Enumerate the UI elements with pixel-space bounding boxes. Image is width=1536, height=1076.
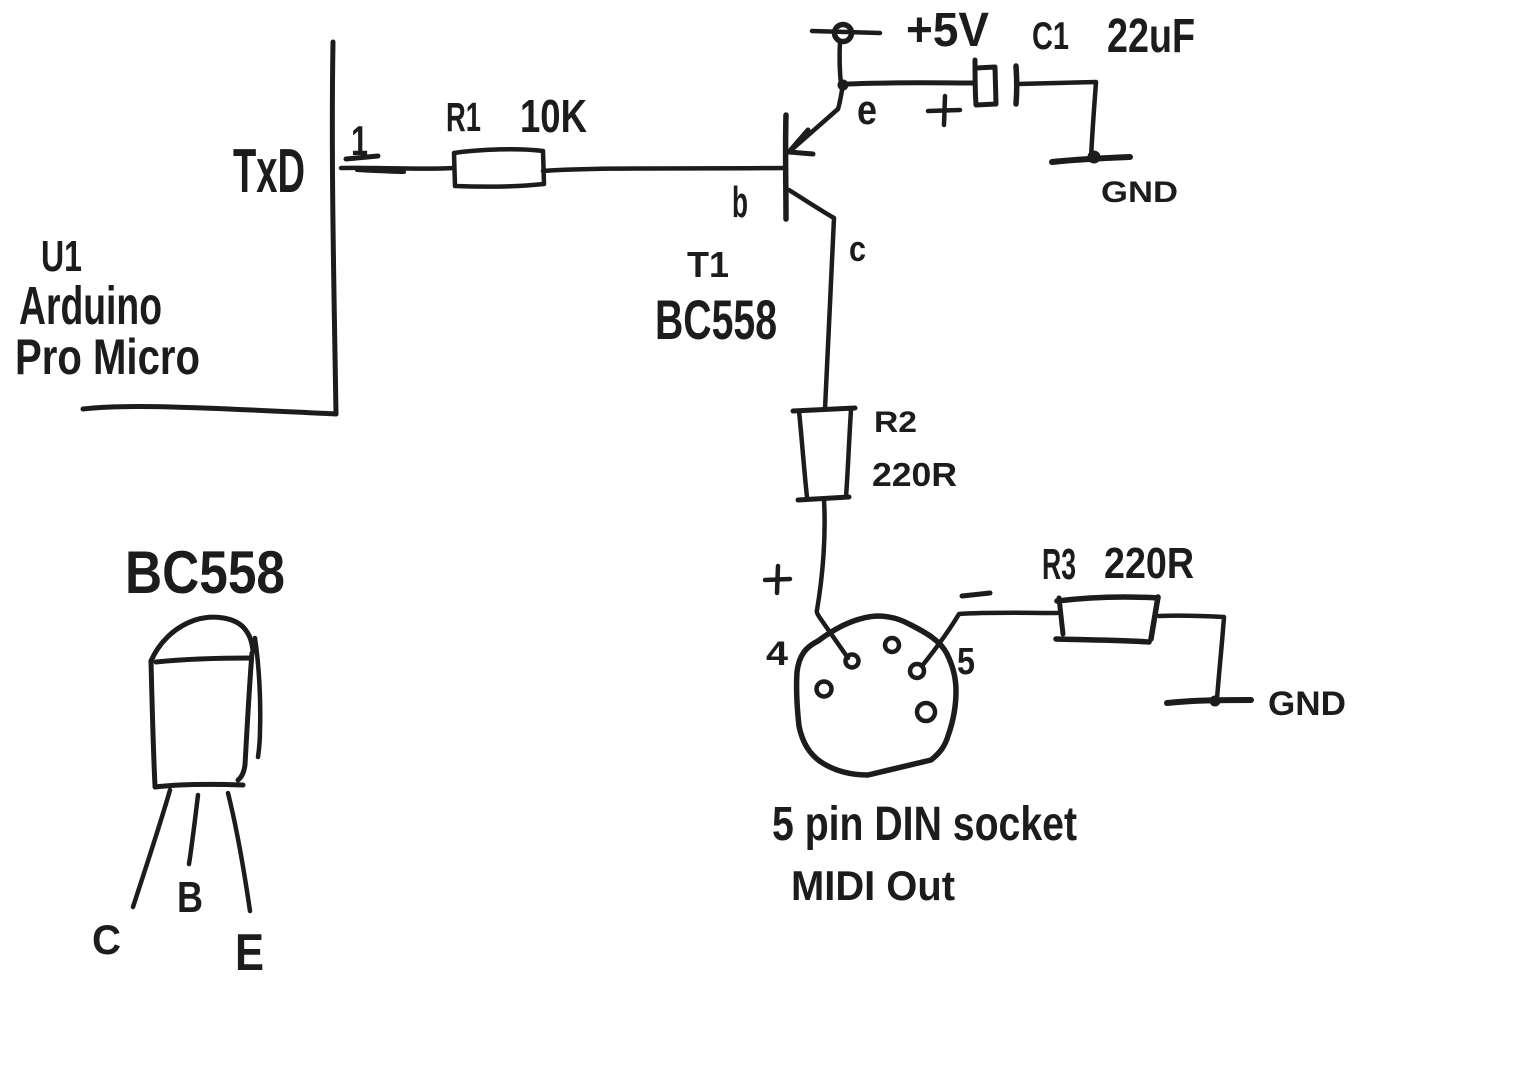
svg-text:Pro Micro: Pro Micro [15, 329, 200, 385]
svg-text:T1: T1 [687, 244, 729, 285]
svg-text:c: c [849, 228, 866, 269]
capacitor C1 [975, 60, 1017, 105]
wire C1 to GND [1017, 82, 1096, 159]
wire R1 to base [543, 168, 784, 171]
svg-text:TxD: TxD [233, 137, 305, 206]
svg-text:BC558: BC558 [125, 539, 285, 606]
BC558 package leg B [189, 795, 198, 864]
svg-text:5 pin DIN socket: 5 pin DIN socket [772, 798, 1077, 851]
wire overlap stroke [357, 170, 404, 172]
svg-text:220R: 220R [1104, 539, 1194, 588]
resistor R1 [454, 149, 544, 186]
label + (C1 polarity) [928, 96, 960, 125]
pin 1 label [346, 117, 378, 164]
wire TxD to R1 [341, 166, 454, 171]
wire +5V to junction [840, 42, 841, 85]
BC558 package leg C [133, 790, 170, 907]
label - (pin 5 polarity) [962, 593, 990, 596]
svg-text:10K: 10K [520, 90, 587, 142]
svg-text:e: e [857, 86, 877, 133]
wire junction to C1 [848, 83, 974, 84]
wire R2 to DIN pin 4 [817, 500, 848, 658]
svg-text:+5V: +5V [906, 4, 989, 57]
DIN bottom pin hole [917, 703, 935, 721]
svg-text:5: 5 [957, 641, 975, 683]
svg-text:B: B [177, 873, 203, 922]
svg-text:R1: R1 [446, 94, 481, 140]
svg-text:220R: 220R [872, 456, 957, 493]
wire R3 to GND [1159, 616, 1224, 699]
DIN left pin hole [817, 682, 832, 697]
svg-text:GND: GND [1101, 176, 1178, 209]
svg-text:C: C [92, 916, 121, 963]
resistor R2 [793, 408, 855, 500]
svg-text:Arduino: Arduino [19, 276, 162, 336]
svg-text:R3: R3 [1042, 540, 1076, 589]
DIN pin 5 hole [910, 664, 924, 678]
svg-text:MIDI Out: MIDI Out [791, 862, 955, 909]
ground GND (right) [1167, 696, 1251, 707]
svg-text:22uF: 22uF [1107, 10, 1195, 63]
svg-text:GND: GND [1268, 685, 1346, 723]
transistor BC558 package body [151, 617, 260, 787]
DIN pin 4 hole [846, 655, 859, 668]
BC558 package leg E [228, 793, 250, 911]
DIN top pin hole [885, 638, 899, 652]
+5V terminal [812, 25, 880, 42]
svg-text:R2: R2 [874, 406, 917, 439]
svg-text:C1: C1 [1032, 15, 1069, 58]
label + (pin 4 polarity) [765, 566, 790, 593]
wire pin 5 to R3 [922, 613, 1057, 666]
svg-text:b: b [732, 178, 748, 227]
svg-text:U1: U1 [41, 232, 82, 281]
junction dot e-node [838, 80, 849, 91]
resistor R3 [1056, 597, 1158, 642]
transistor T1 [786, 85, 843, 409]
svg-text:E: E [235, 924, 264, 982]
svg-text:4: 4 [766, 635, 788, 673]
ground GND (C1) [1052, 151, 1130, 164]
U1 Arduino Pro Micro bracket [83, 42, 336, 414]
svg-text:BC558: BC558 [655, 288, 777, 351]
DIN socket outline [797, 616, 956, 775]
